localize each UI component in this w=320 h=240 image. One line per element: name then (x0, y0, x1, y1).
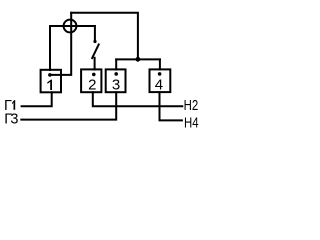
terminal 1 dot (48, 73, 52, 77)
terminal 1 box (41, 70, 61, 93)
svg-text:3: 3 (112, 77, 120, 94)
wire: branch down into terminal 3 (115, 59, 117, 69)
wire: terminal 1 to node Г1 (22, 92, 52, 106)
wire: terminal 2 to node Н2 (93, 92, 183, 106)
svg-text:3: 3 (10, 112, 18, 128)
terminal 2 box (81, 69, 101, 92)
wire: horizontal run through lamp (terminal 1 riser to switch riser) (50, 25, 95, 27)
wire: vertical run through lamp down into terminal 1 dot (51, 13, 72, 75)
svg-text:4: 4 (155, 76, 163, 93)
svg-text:Н2: Н2 (184, 98, 199, 114)
wire: branch horizontal over terminals 3 and 4 (116, 58, 160, 60)
terminal 4 box (150, 69, 171, 92)
svg-text:2: 2 (88, 76, 96, 93)
wire: lamp left riser down to terminal 1 (49, 26, 51, 70)
wire: branch down into terminal 4 (159, 59, 161, 69)
terminal 3 dot (114, 72, 118, 76)
switch SA blade (92, 45, 99, 59)
terminal 3 box (106, 69, 126, 92)
switch SA fixed contact dot (93, 40, 96, 43)
terminal 2 dot (92, 73, 96, 77)
lamp HL (circle with cross) (64, 20, 77, 33)
wire: switch riser from lamp run to switch top contact (94, 26, 96, 40)
terminal 4 dot (158, 72, 162, 76)
pin label 1 (47, 80, 52, 90)
svg-text:Н4: Н4 (184, 115, 199, 131)
wire: terminal 3 to node Г3 (long bottom run) (21, 92, 116, 119)
node: junction on neutral branch (136, 57, 141, 62)
wire: terminal 4 to node Н4 (160, 92, 182, 120)
wire: top run to terminal-4 branch (71, 13, 138, 60)
wire: switch lower lead into terminal 2 (94, 58, 96, 70)
